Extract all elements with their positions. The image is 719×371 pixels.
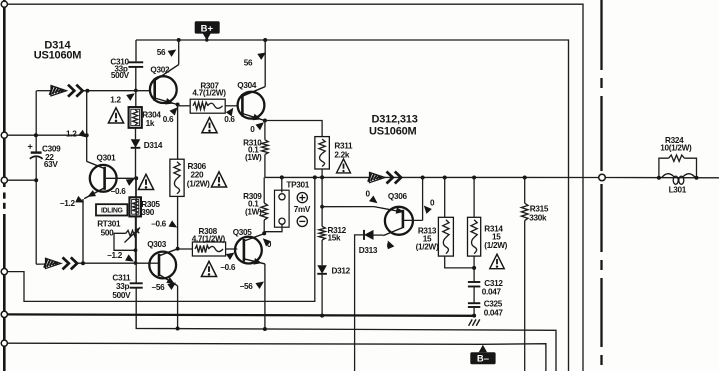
node terminal left y314 <box>1 311 7 317</box>
svg-text:Q304: Q304 <box>237 81 257 90</box>
node terminal left y180 <box>1 177 7 183</box>
resistor R324 bypass <box>659 155 697 178</box>
label R304 value <box>142 111 161 129</box>
label voltage 1.2 at C310 <box>110 90 137 104</box>
wire D313 column to bottom <box>355 235 364 371</box>
svg-text:0.6: 0.6 <box>163 115 174 124</box>
svg-text:4.7(1/2W): 4.7(1/2W) <box>192 89 226 98</box>
capacitor C325 <box>468 303 480 307</box>
potentiometer RT301 <box>114 226 142 251</box>
node L301 right <box>695 176 699 180</box>
warning triangle right of R306 <box>211 172 226 187</box>
svg-text:1.2: 1.2 <box>110 95 121 104</box>
node rail R314 <box>472 176 476 180</box>
wire R308 left to Q303 collector <box>178 248 193 250</box>
svg-text:4.7(1/2W): 4.7(1/2W) <box>192 234 226 243</box>
svg-text:63V: 63V <box>44 160 59 169</box>
power B- label <box>470 345 495 365</box>
node R308 Q303 junction <box>176 247 180 251</box>
node rail feedback column <box>313 175 317 179</box>
node terminal top-left <box>1 1 7 7</box>
label C311 value <box>112 273 131 300</box>
capacitor C311 <box>130 283 143 287</box>
wire Q302 emitter to R307 <box>178 105 191 107</box>
node rail R311/R312 <box>320 175 324 179</box>
arrow mid rail continuation <box>368 172 401 184</box>
resistor R306 <box>170 159 184 196</box>
wire node to R305 <box>135 178 137 197</box>
node Q301 base junction (-0.6) <box>134 176 138 180</box>
wire R307 to Q304 base <box>225 105 238 107</box>
svg-text:1k: 1k <box>146 119 155 128</box>
node input lower junction <box>81 261 85 265</box>
wire Q306 to D313 <box>374 234 384 236</box>
wire R311 to rail <box>321 169 323 177</box>
wire D314 to node -0.6 <box>135 148 137 179</box>
svg-text:0: 0 <box>250 125 255 134</box>
svg-text:B–: B– <box>477 354 489 365</box>
label R307 value <box>192 82 226 98</box>
wire right boundary dash-dot line <box>600 0 602 365</box>
node rail R315 <box>523 176 527 180</box>
svg-text:–1.2: –1.2 <box>107 251 122 260</box>
arrow input upper continuation <box>50 85 83 97</box>
label voltage -0.6 R306 <box>151 219 179 230</box>
svg-text:7mV: 7mV <box>294 205 311 214</box>
label voltage 56 Q304 <box>244 49 268 67</box>
capacitor C310 <box>128 62 143 67</box>
wire D312 to ground line <box>321 274 323 316</box>
wire thick ground line (y=315) <box>4 314 476 315</box>
label R305 value <box>141 200 160 217</box>
diode D313 <box>364 230 374 240</box>
svg-text:500V: 500V <box>111 71 130 80</box>
svg-text:33p: 33p <box>116 282 130 291</box>
wire R315 to bottom <box>524 221 526 371</box>
svg-text:0: 0 <box>366 190 371 199</box>
svg-text:IDLING: IDLING <box>101 208 123 215</box>
resistor R307 <box>190 99 225 113</box>
wire R306 to Q303 collector <box>177 196 179 248</box>
svg-text:Q306: Q306 <box>388 192 408 201</box>
wire C310 to R304 <box>135 67 137 107</box>
ground symbol <box>469 319 480 325</box>
wire R305 through RT301 to base wire <box>135 216 137 263</box>
diode D314 <box>131 139 141 148</box>
transistor Q302 <box>150 40 179 107</box>
wire R314 to C312 <box>473 256 475 281</box>
resistor R304 <box>129 107 142 128</box>
warning triangle near Q301 <box>138 174 153 189</box>
transistor Q303 <box>149 249 177 287</box>
label C325 value <box>484 299 504 317</box>
wire Q302 emitter to R306 <box>177 105 179 160</box>
wire R310 to rail <box>264 155 266 178</box>
test point TP301 <box>275 190 290 227</box>
label RT301 value <box>97 219 121 237</box>
wire R308 to Q305 base <box>226 248 238 250</box>
svg-text:R315: R315 <box>530 204 549 213</box>
wire Q306 base tap to transistor <box>322 207 402 212</box>
wire Q301 emitter column <box>82 199 84 263</box>
svg-text:+: + <box>28 142 33 152</box>
resistor R309 <box>261 203 268 220</box>
svg-text:(1W): (1W) <box>245 208 262 217</box>
wire R312 to D312 <box>321 240 323 265</box>
svg-text:US1060M: US1060M <box>34 49 82 61</box>
svg-text:10(1/2W): 10(1/2W) <box>660 143 692 152</box>
resistor R312 <box>319 226 325 240</box>
node terminal left y135 <box>1 132 7 138</box>
arrow input lower continuation <box>44 257 77 269</box>
label R312 value <box>328 226 347 242</box>
resistor R305 <box>129 197 141 216</box>
label IDLING box <box>96 204 127 215</box>
node Q304 emitter junction <box>263 119 267 123</box>
svg-text:Q305: Q305 <box>233 228 253 237</box>
diode D312 <box>317 265 327 274</box>
wire Q303 emitter column <box>177 286 179 329</box>
node R313-R314 junction <box>472 266 476 270</box>
svg-text:(1W): (1W) <box>245 153 262 162</box>
wire -0.6 node to C311 <box>135 178 137 282</box>
node L301 left <box>657 176 661 180</box>
wire y=135 from left edge <box>4 134 86 136</box>
svg-text:330k: 330k <box>529 213 547 222</box>
wire Q304 emitter to R310 <box>264 121 266 140</box>
label voltage -56 Q303 <box>152 280 178 292</box>
node Q306 base tap <box>320 205 324 209</box>
wire rail to R315 <box>524 178 526 204</box>
label R309 value <box>243 192 262 217</box>
label R306 value <box>187 162 210 188</box>
node C309 top junction <box>34 133 38 137</box>
wire output mid rail <box>265 176 719 178</box>
label R310 value <box>243 139 262 162</box>
svg-text:TP301: TP301 <box>286 181 309 190</box>
label voltage -0.6 Q301 <box>111 176 136 196</box>
svg-text:390: 390 <box>141 208 155 217</box>
node D312 at thick line <box>320 314 324 318</box>
svg-text:0: 0 <box>430 199 435 208</box>
wire rail to R312 node <box>321 177 323 226</box>
wire TP301 bottom to Q305 collector <box>264 224 282 233</box>
label R315 value <box>529 204 549 222</box>
node Q302 collector at B+ rail <box>177 38 181 42</box>
wire left boundary dash-dot line <box>3 0 6 371</box>
capacitor C312 <box>468 282 480 287</box>
resistor R311 <box>315 137 330 169</box>
svg-text:D314: D314 <box>144 141 163 150</box>
node output Q305 emitter <box>263 327 267 331</box>
inductor L301 <box>662 174 696 185</box>
resistor R310 <box>262 140 269 155</box>
svg-text:Q303: Q303 <box>147 240 167 249</box>
svg-text:Q302: Q302 <box>150 66 170 75</box>
transistor Q301 <box>84 91 136 200</box>
node connector at boundary <box>599 174 606 181</box>
label voltage -0.6 R308 <box>220 250 236 272</box>
wire C309 column <box>35 91 37 152</box>
resistor R308 <box>192 242 225 256</box>
node B+ tag junction <box>205 38 208 41</box>
svg-text:D313: D313 <box>359 246 378 255</box>
label C310 value <box>110 57 129 80</box>
label C309 value <box>42 144 61 169</box>
svg-text:D312,313: D312,313 <box>372 114 418 126</box>
label voltage 0 Q304 emitter <box>250 120 266 134</box>
label voltage 0 Q306 right <box>421 199 435 214</box>
wire chassis top rail (y=4) with right vertical <box>4 4 583 371</box>
label R308 value <box>192 227 226 243</box>
wire output line (y=328.5) <box>136 288 556 371</box>
capacitor C309 electrolytic <box>28 142 43 159</box>
label C312 value <box>482 279 504 296</box>
label voltage 0.6 Q302 <box>163 105 180 124</box>
node input upper junction <box>85 89 89 93</box>
svg-text:220: 220 <box>191 170 205 179</box>
svg-text:500: 500 <box>101 229 115 238</box>
warning triangle below R307 <box>202 118 217 133</box>
wire input upper (y=90.7) <box>37 90 151 92</box>
wire rail to R313 <box>444 178 446 218</box>
svg-text:–0.6: –0.6 <box>220 263 235 272</box>
node terminal left y271 <box>1 269 7 275</box>
svg-text:0.6: 0.6 <box>224 115 235 124</box>
wire feedback left (y=301.4) <box>4 177 315 301</box>
node RT301 wiper junction <box>134 248 138 252</box>
warning triangle below R308 <box>201 261 216 276</box>
svg-text:(1/2W): (1/2W) <box>484 241 507 250</box>
svg-text:500V: 500V <box>112 291 131 300</box>
svg-text:R311: R311 <box>334 142 353 151</box>
label voltage 0.6 Q304 base <box>224 106 236 124</box>
svg-text:–56: –56 <box>240 282 254 291</box>
label D312,313 US1060M header <box>369 114 418 138</box>
wire rail to R314 <box>473 178 475 218</box>
svg-text:56: 56 <box>157 48 166 57</box>
wire C312 to C325 <box>473 287 475 303</box>
warning triangle below R314 <box>490 254 504 268</box>
svg-text:0.047: 0.047 <box>484 309 504 318</box>
wire bias column top (B+ corner to C310) <box>135 40 137 61</box>
label voltage -56 Q305 <box>240 279 266 292</box>
svg-text:RT301: RT301 <box>97 219 121 228</box>
wire input lower (y=263.5) <box>36 263 150 264</box>
node Q302 base junction <box>134 89 138 93</box>
wire Q304 emitter to R311 corner <box>265 121 322 137</box>
wire C325 to thick line <box>473 307 475 316</box>
label D314 US1060M header <box>34 40 82 62</box>
svg-text:Q301: Q301 <box>97 154 117 163</box>
svg-text:L301: L301 <box>669 186 687 195</box>
wire R304 to D314 <box>135 128 137 140</box>
svg-text:(1/2W): (1/2W) <box>187 180 210 189</box>
wire C309 bottom column <box>35 157 37 265</box>
label voltage 0 Q305 collector <box>260 236 272 249</box>
node output Q303 emitter <box>176 327 180 331</box>
svg-text:2.2k: 2.2k <box>334 151 349 160</box>
wire Q306 right lead to rail <box>422 178 424 221</box>
resistor R313 <box>438 217 453 256</box>
node Q304 collector at B+ rail <box>263 38 267 42</box>
node Q302 emitter junction <box>176 103 180 107</box>
wire B- line (y=343.5) <box>4 343 546 371</box>
wire B+ rail (y=40) with right vertical <box>136 40 569 371</box>
node ground junction <box>472 314 476 318</box>
node Q305 collector junction <box>262 231 266 235</box>
node rail R313 <box>443 176 447 180</box>
wire Q305 emitter column <box>264 264 266 329</box>
wire y=180 from left edge <box>4 179 36 181</box>
svg-text:US1060M: US1060M <box>369 125 417 137</box>
node rail Q306 collector <box>421 176 425 180</box>
node rail TP301 <box>280 175 284 179</box>
label R324 value <box>660 136 692 152</box>
svg-text:–1.2: –1.2 <box>60 199 75 208</box>
label voltage -1.2 upper <box>60 196 86 208</box>
transistor Q304 <box>238 40 266 123</box>
svg-text:0.047: 0.047 <box>482 287 502 296</box>
warning triangle left of R304 <box>108 108 123 123</box>
svg-text:56: 56 <box>244 58 253 67</box>
svg-text:–0.6: –0.6 <box>151 219 166 228</box>
label voltage 0 Q306 upper <box>366 190 380 207</box>
label R313 value <box>416 226 439 251</box>
warning triangle below R311 <box>337 159 351 173</box>
wire R313 jog to R314 column <box>445 256 474 268</box>
label R314 value <box>484 224 507 249</box>
resistor R314 <box>468 217 481 256</box>
label R311 value <box>334 142 353 160</box>
wire TP301 to rail <box>281 177 283 192</box>
wire R309 to Q305 collector <box>263 220 265 233</box>
node C309 bottom junction <box>34 178 38 182</box>
label voltage 0 Q306 lower <box>385 239 395 251</box>
svg-text:1.2: 1.2 <box>66 130 77 139</box>
resistor R315 <box>521 203 528 220</box>
svg-text:B+: B+ <box>201 23 214 34</box>
label TP301 polarity <box>294 193 311 227</box>
node terminal left y343 <box>1 340 7 346</box>
label voltage -1.2 Q303 <box>107 251 135 265</box>
label voltage 56 Q302 <box>157 46 178 57</box>
svg-text:–0.6: –0.6 <box>111 187 126 196</box>
transistor Q306 <box>383 207 422 236</box>
svg-text:–56: –56 <box>152 283 166 292</box>
label voltage 1.2 at y135 <box>66 130 89 141</box>
wire rail to R309 <box>263 177 265 203</box>
svg-text:D312: D312 <box>332 266 351 275</box>
power B+ label <box>195 21 220 40</box>
transistor Q305 <box>235 234 265 267</box>
svg-text:15k: 15k <box>328 233 342 242</box>
node RT301 bottom junction (-1.2) <box>134 261 138 265</box>
node Q301 collector column junction <box>85 133 89 137</box>
svg-text:C325: C325 <box>484 299 503 308</box>
svg-text:(1/2W): (1/2W) <box>416 243 439 252</box>
